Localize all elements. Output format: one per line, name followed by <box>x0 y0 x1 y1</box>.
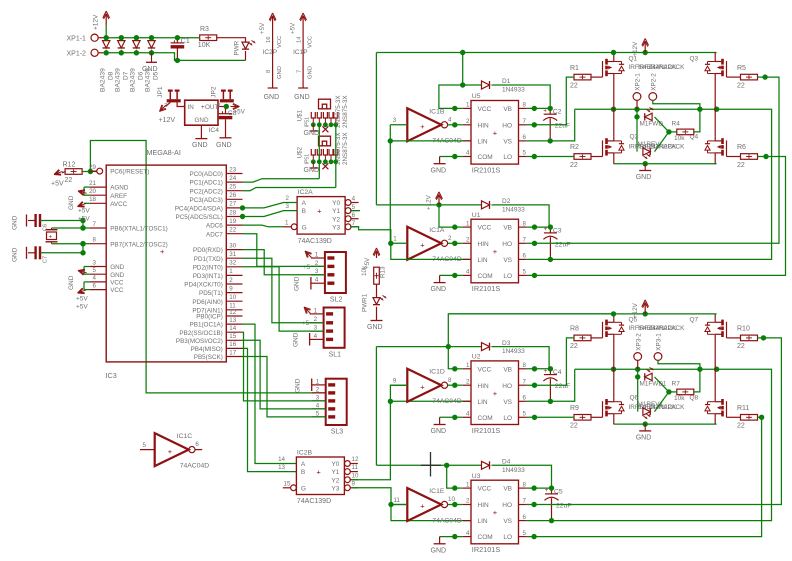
svg-text:IC3: IC3 <box>106 371 117 380</box>
svg-text:LIN: LIN <box>478 518 488 525</box>
svg-text:+: + <box>420 122 425 131</box>
svg-text:8: 8 <box>523 220 527 227</box>
svg-text:COM: COM <box>478 415 493 422</box>
svg-text:VCC: VCC <box>308 36 314 48</box>
svg-text:PD3(INT1): PD3(INT1) <box>193 273 223 280</box>
svg-text:+: + <box>544 369 548 375</box>
svg-text:7: 7 <box>523 498 527 505</box>
transistor Q1 <box>602 61 604 77</box>
wire pin27 to IC2A A <box>243 203 298 208</box>
svg-text:XP1-1: XP1-1 <box>67 35 87 42</box>
wire R10 lead <box>758 337 764 339</box>
wire U1 VCC drop <box>439 205 455 227</box>
capacitor C2 <box>549 108 551 114</box>
svg-text:+: + <box>545 488 549 494</box>
svg-text:21: 21 <box>89 180 96 187</box>
junction xtal1 a <box>80 218 85 223</box>
regulator IC4 <box>185 100 218 125</box>
svg-text:22uF: 22uF <box>556 502 572 509</box>
connector SL3 <box>326 379 347 425</box>
svg-text:7: 7 <box>523 378 527 385</box>
svg-text:1: 1 <box>314 307 318 314</box>
svg-text:19: 19 <box>229 218 236 225</box>
svg-text:13: 13 <box>278 464 285 471</box>
svg-text:74AC04D: 74AC04D <box>432 517 462 524</box>
svg-text:R6: R6 <box>737 144 746 151</box>
resistor R2 <box>574 154 591 160</box>
wire diag 1 <box>655 117 669 132</box>
svg-text:AREF: AREF <box>110 193 127 200</box>
svg-text:7: 7 <box>523 237 527 244</box>
svg-text:COM: COM <box>478 534 493 541</box>
svg-text:HIN: HIN <box>478 383 490 390</box>
junction bridge1 mid4 <box>714 107 719 112</box>
junction HO U1 <box>532 241 537 246</box>
wire VS U1 to mid rail <box>527 109 772 259</box>
wire +12V to rail <box>105 25 107 38</box>
svg-text:PD4(XCK/T0): PD4(XCK/T0) <box>184 282 223 289</box>
svg-text:R12: R12 <box>63 161 76 168</box>
junction pin27 <box>240 205 245 210</box>
svg-text:VB: VB <box>503 486 512 493</box>
junction b2 rail b <box>643 311 648 316</box>
ground at SL1 pin4 <box>309 333 311 346</box>
junction C1 bottom <box>175 58 180 63</box>
diode D7 BA2439 <box>118 41 125 48</box>
svg-text:25: 25 <box>229 184 236 191</box>
svg-text:PC0(ADC0): PC0(ADC0) <box>190 171 223 178</box>
ground at SL2 pin4 <box>310 277 312 290</box>
wire IC4 OUT <box>218 106 226 108</box>
wire LO U5 to R2 <box>527 156 574 158</box>
junction bridge1 gnd <box>643 161 648 166</box>
svg-text:4: 4 <box>314 333 318 340</box>
wire R3 to PWR <box>217 38 246 42</box>
svg-text:8: 8 <box>266 70 272 73</box>
svg-text:PD1(TXD): PD1(TXD) <box>194 256 223 263</box>
svg-text:VCC: VCC <box>478 106 492 113</box>
junction VS U3 cap <box>549 518 554 523</box>
svg-text:LO: LO <box>503 534 512 541</box>
svg-text:+: + <box>420 382 425 391</box>
supply +5V at SL1 pin1 <box>304 307 310 313</box>
connector XP3-2 <box>634 353 642 361</box>
svg-text:IR2101S: IR2101S <box>472 426 501 435</box>
junction b2 rail a <box>611 311 616 316</box>
transistor Q8 <box>726 401 728 417</box>
wire R12 left <box>62 172 65 173</box>
junction VB U5 b <box>548 106 553 111</box>
svg-text:Q7: Q7 <box>690 317 699 324</box>
wire D2 cathode to VB U1 <box>492 205 550 227</box>
svg-text:BA2439: BA2439 <box>115 68 122 92</box>
svg-text:14: 14 <box>297 36 303 43</box>
svg-text:GND: GND <box>68 275 75 290</box>
wire C9 to xtal net <box>40 252 83 254</box>
inverter IC1D <box>407 369 441 402</box>
svg-text:IRFZ44N2PACK: IRFZ44N2PACK <box>638 64 685 71</box>
svg-text:IP51: IP51 <box>305 117 311 128</box>
junction bridge2 mid3 <box>697 367 702 372</box>
wire U$ vertical a <box>318 125 320 179</box>
wire top +12V rail <box>376 52 716 54</box>
transistor Q2 <box>602 140 604 156</box>
supply +5V arrow at R12 <box>54 171 62 174</box>
svg-text:2NS875-3X: 2NS875-3X <box>342 95 349 128</box>
inverter IC1C (spare) <box>155 433 189 466</box>
svg-text:VCC: VCC <box>110 280 124 287</box>
svg-text:HIN: HIN <box>478 122 490 129</box>
junction xtal2 a <box>80 250 85 255</box>
svg-text:VB: VB <box>503 225 512 232</box>
wire pin28 to IC2A B <box>243 211 298 217</box>
supply +5V at SL2 pin1 <box>305 251 311 257</box>
svg-text:1: 1 <box>466 362 470 369</box>
ground arrows AGND/AREF <box>84 186 90 188</box>
decoder IC2A <box>297 197 345 235</box>
svg-text:5: 5 <box>523 530 527 537</box>
svg-text:2: 2 <box>314 316 318 323</box>
wire pin30 to SL2 pin3 <box>243 250 325 275</box>
wire U5 VCC branch <box>439 53 463 109</box>
wire IC2A Y1 stub <box>350 210 360 212</box>
svg-text:C2: C2 <box>553 109 562 116</box>
svg-text:26: 26 <box>229 192 236 199</box>
svg-text:BA2439: BA2439 <box>130 68 137 92</box>
ground under diode D5 <box>151 53 153 63</box>
svg-text:U$1: U$1 <box>297 109 304 121</box>
svg-text:14: 14 <box>229 325 236 332</box>
junction R6 node <box>763 154 768 159</box>
svg-text:VB: VB <box>503 106 512 113</box>
svg-text:PB1(OC1A): PB1(OC1A) <box>190 322 223 329</box>
svg-text:D2: D2 <box>502 198 511 205</box>
svg-text:+: + <box>49 234 53 240</box>
svg-text:LO: LO <box>503 273 512 280</box>
svg-text:R11: R11 <box>737 405 749 412</box>
junction bridge1 mid3 <box>697 107 702 112</box>
capacitor C6 <box>34 214 36 227</box>
svg-text:XP3-2: XP3-2 <box>635 333 642 351</box>
svg-text:LIN: LIN <box>478 139 488 146</box>
svg-text:+: + <box>493 389 498 398</box>
wire HO U5 to R1 <box>527 77 574 125</box>
wire pin14 to SL3 pin3 <box>243 332 326 401</box>
junction U1 rail arrow <box>436 202 441 207</box>
connector XP1-1 <box>91 34 98 41</box>
svg-text:+: + <box>493 508 498 517</box>
svg-text:22uF: 22uF <box>555 383 571 390</box>
svg-text:22: 22 <box>737 162 745 169</box>
inverter IC1A <box>407 227 441 260</box>
wire xtal bottom <box>52 243 84 245</box>
wire R13 to PWR1 <box>376 284 378 297</box>
svg-text:22uF: 22uF <box>555 123 571 130</box>
junction VS U1 cap <box>548 257 553 262</box>
crossing mark <box>430 452 432 477</box>
svg-text:+12V: +12V <box>632 41 639 57</box>
junction VB U2 a <box>532 366 537 371</box>
junction pin7 <box>80 225 85 230</box>
svg-text:22: 22 <box>570 343 578 350</box>
svg-text:+: + <box>420 241 425 250</box>
wire IC2B Y2 to IC1D input <box>352 385 407 480</box>
svg-text:3: 3 <box>393 117 397 124</box>
svg-text:GND: GND <box>431 428 447 435</box>
resistor R13 <box>374 267 380 284</box>
wires U1 left pins + ground <box>452 224 457 229</box>
wire R11 lead <box>758 416 762 418</box>
junction reset <box>88 169 93 174</box>
svg-text:C5: C5 <box>554 488 563 495</box>
svg-text:GND: GND <box>431 547 447 554</box>
svg-text:PWR1: PWR1 <box>362 293 369 312</box>
svg-text:VB: VB <box>503 366 512 373</box>
svg-text:PC2(ADC2): PC2(ADC2) <box>190 188 223 195</box>
junction LO U3 <box>531 534 536 539</box>
junction D6 top <box>134 35 139 40</box>
connector SL2 <box>325 252 346 293</box>
svg-text:PC4(ADC4/SDA): PC4(ADC4/SDA) <box>175 206 223 213</box>
svg-text:GND: GND <box>216 142 232 149</box>
capacitor C4 <box>549 369 551 375</box>
svg-text:23: 23 <box>229 166 236 173</box>
wire diag 2 <box>655 132 669 152</box>
svg-text:VCC: VCC <box>110 287 124 294</box>
svg-text:PB0(ICP): PB0(ICP) <box>196 314 223 321</box>
svg-text:+12V: +12V <box>426 194 433 210</box>
svg-text:R13: R13 <box>380 266 387 278</box>
led PWR <box>242 42 249 49</box>
wire HO U2 to R8 <box>527 338 574 385</box>
svg-text:5: 5 <box>93 267 97 274</box>
supply +5V pins 4/6 <box>84 281 90 283</box>
wire U2 VCC rail <box>376 346 481 348</box>
svg-text:Q8: Q8 <box>690 395 699 402</box>
svg-text:ADC6: ADC6 <box>206 223 223 230</box>
svg-text:+: + <box>420 502 425 511</box>
diode D1 1N4933 <box>482 81 490 89</box>
svg-text:1: 1 <box>393 236 397 243</box>
filter U$2 <box>319 136 331 146</box>
led M1FWD <box>645 113 652 120</box>
svg-text:29: 29 <box>89 164 96 171</box>
svg-text:74AC139D: 74AC139D <box>298 238 332 245</box>
wire D1 anode <box>463 84 482 86</box>
svg-text:3: 3 <box>316 394 320 401</box>
svg-text:JP1: JP1 <box>157 86 164 98</box>
svg-text:PB3(MOSI/OC2): PB3(MOSI/OC2) <box>176 338 223 345</box>
svg-text:+5: +5 <box>302 320 310 327</box>
svg-text:XP3-1: XP3-1 <box>656 333 663 351</box>
svg-text:1N4933: 1N4933 <box>502 87 525 94</box>
wire power riser x376 lower <box>375 347 377 466</box>
svg-text:8: 8 <box>523 102 527 109</box>
svg-text:BA2439: BA2439 <box>99 68 106 92</box>
svg-text:C7: C7 <box>43 256 49 263</box>
svg-text:4: 4 <box>316 402 320 409</box>
resistor R1 <box>574 74 591 80</box>
transistor Q7 <box>726 322 728 338</box>
junction VB U3 b <box>549 485 554 490</box>
svg-text:IC1P: IC1P <box>293 49 307 56</box>
wire diag 1 <box>655 377 669 392</box>
supply +5V arrow at JP2 <box>231 106 240 108</box>
svg-text:R4: R4 <box>672 120 681 127</box>
wire LIN U3 feed <box>391 505 471 521</box>
svg-text:GND: GND <box>636 174 652 181</box>
supply +12V arrow at JP1 <box>166 102 170 106</box>
wire bridge1 mid rail <box>575 108 717 110</box>
svg-text:R3: R3 <box>200 26 209 33</box>
svg-text:12: 12 <box>229 309 236 316</box>
svg-text:5: 5 <box>523 411 527 418</box>
crystal Q1 <box>47 232 57 240</box>
led M1REV1 <box>643 408 650 415</box>
power pins IC2P <box>272 17 274 28</box>
svg-text:LO: LO <box>503 154 512 161</box>
svg-text:5: 5 <box>352 204 356 211</box>
inverter IC1B <box>407 108 441 141</box>
junction VS U5 cap <box>548 138 553 143</box>
svg-text:+5V: +5V <box>259 22 266 34</box>
wire JP1 to IC4 IN <box>177 102 185 106</box>
wire VB U1 <box>527 226 551 228</box>
svg-text:Y1: Y1 <box>331 469 339 476</box>
junction bridge2 mid1 <box>611 367 616 372</box>
jumper JP2 <box>222 91 224 100</box>
transistor Q6 <box>602 401 604 417</box>
svg-text:+: + <box>493 247 498 256</box>
svg-text:PB4(MISO): PB4(MISO) <box>191 346 223 353</box>
junction VB U2 b <box>548 366 553 371</box>
svg-text:31: 31 <box>229 251 236 258</box>
svg-text:22: 22 <box>737 82 745 89</box>
wire LO U1 to R6 <box>527 157 786 276</box>
svg-text:+12V: +12V <box>159 117 176 124</box>
driver U1 IR2101S <box>471 219 519 283</box>
svg-text:+12V: +12V <box>93 14 100 30</box>
junction LIN U2 <box>388 399 393 404</box>
ground pins 3/5 <box>84 266 90 268</box>
svg-text:SL1: SL1 <box>329 351 342 358</box>
capacitor C1 <box>176 38 178 43</box>
svg-text:PWR: PWR <box>233 40 240 55</box>
wire U1 VCC rail <box>376 204 481 206</box>
svg-text:ADC7: ADC7 <box>206 231 223 238</box>
svg-text:+: + <box>543 108 547 114</box>
resistor R9 <box>574 415 591 421</box>
svg-text:74AC139D: 74AC139D <box>297 498 331 505</box>
svg-text:C8: C8 <box>228 110 237 117</box>
junction D1 anode <box>460 82 465 87</box>
svg-text:9: 9 <box>393 378 397 385</box>
svg-text:D1: D1 <box>502 78 511 85</box>
svg-text:11: 11 <box>352 464 359 471</box>
junction LO U2 <box>532 415 537 420</box>
svg-text:74AC04D: 74AC04D <box>180 462 210 469</box>
junction D8 bottom <box>104 50 109 55</box>
wire bridge2 top rail <box>448 313 716 315</box>
junction LO U1 <box>532 273 537 278</box>
junction VS U2 cap <box>548 399 553 404</box>
wire bridge2 mid rail <box>575 368 717 370</box>
mcu IC3 MEGA8-AI <box>106 165 226 362</box>
svg-text:Q3: Q3 <box>690 56 699 63</box>
svg-text:IC4: IC4 <box>209 127 220 134</box>
svg-text:1: 1 <box>315 251 319 258</box>
svg-text:22: 22 <box>570 82 578 89</box>
svg-text:+5V: +5V <box>51 181 64 188</box>
svg-text:COM: COM <box>478 273 493 280</box>
svg-text:IC2B: IC2B <box>297 450 313 457</box>
svg-text:12: 12 <box>352 456 359 463</box>
wire LIN U5 feed <box>390 140 471 142</box>
svg-text:IRFZ44N2PACK: IRFZ44N2PACK <box>638 325 685 332</box>
svg-text:GND: GND <box>304 130 320 137</box>
svg-text:2: 2 <box>217 103 220 109</box>
supply +12V arrow bridge1 <box>644 43 646 53</box>
decoder IC2B <box>296 457 344 495</box>
svg-text:Q2: Q2 <box>630 134 639 141</box>
filter U$1 <box>319 99 331 109</box>
junction bridge2 mid4 <box>714 367 719 372</box>
svg-text:+5V: +5V <box>290 22 297 34</box>
svg-text:Y3: Y3 <box>331 485 339 492</box>
svg-text:GND: GND <box>12 215 19 230</box>
svg-text:20: 20 <box>89 188 96 195</box>
wire VB U5 <box>527 107 550 109</box>
svg-text:M1REV: M1REV <box>638 141 661 148</box>
wire U3 VCC drop <box>447 465 455 488</box>
svg-text:GND: GND <box>431 167 447 174</box>
supply +12V arrow (XP1 rail) <box>105 15 107 25</box>
svg-text:IC1C: IC1C <box>177 433 193 440</box>
wire xtal2 drop <box>82 244 84 253</box>
svg-text:PB6(XTAL1/TOSC1): PB6(XTAL1/TOSC1) <box>110 226 168 233</box>
svg-text:SL2: SL2 <box>330 297 343 304</box>
wire pin16 to IC2B B <box>243 348 297 471</box>
led PWR1 <box>373 298 380 305</box>
svg-text:PC5(ADC5/SCL): PC5(ADC5/SCL) <box>176 214 223 221</box>
resistor R10 <box>741 335 758 341</box>
junction bridge1 mid1 <box>611 107 616 112</box>
junction b1 rail b <box>643 50 648 55</box>
svg-text:PD0(RXD): PD0(RXD) <box>193 247 223 254</box>
svg-text:GND: GND <box>304 167 320 174</box>
resistor R12 <box>65 169 82 175</box>
wire LO U2 to R9 <box>527 416 574 418</box>
junction IC1A input <box>388 241 393 246</box>
svg-text:+: + <box>168 447 173 456</box>
svg-text:R5: R5 <box>737 65 746 72</box>
svg-text:XP2-2: XP2-2 <box>650 73 657 91</box>
svg-text:+: + <box>493 129 498 138</box>
svg-text:GND: GND <box>195 117 209 124</box>
junction D7 top <box>119 35 124 40</box>
resistor R11 <box>741 415 758 421</box>
svg-text:C1: C1 <box>181 38 190 45</box>
svg-text:IC2A: IC2A <box>298 189 314 196</box>
svg-text:+: + <box>544 227 548 233</box>
svg-text:G: G <box>302 224 307 231</box>
svg-text:Y2: Y2 <box>332 216 340 223</box>
svg-text:5: 5 <box>523 150 527 157</box>
svg-text:7: 7 <box>523 118 527 125</box>
svg-text:GND: GND <box>277 66 283 79</box>
supply +5V arrow R13 <box>376 252 378 258</box>
junction LIN U5 tap <box>388 138 393 143</box>
